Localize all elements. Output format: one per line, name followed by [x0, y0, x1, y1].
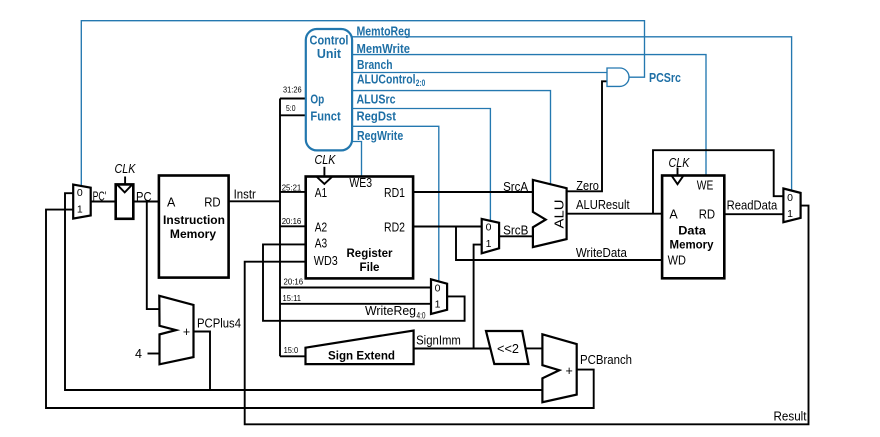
svg-text:PCPlus4: PCPlus4	[197, 317, 241, 331]
wire ALUSrc	[352, 109, 490, 221]
sign extend	[306, 331, 414, 365]
svg-text:1: 1	[486, 238, 492, 250]
wire Zero	[567, 81, 607, 191]
wire MemtoReg	[352, 37, 791, 191]
wire 15:0 to sign extend	[280, 355, 306, 357]
svg-text:25:21: 25:21	[282, 182, 302, 192]
gate AND (Branch & Zero)	[607, 68, 629, 86]
svg-text:15:11: 15:11	[283, 293, 302, 303]
svg-text:WriteData: WriteData	[576, 246, 627, 260]
svg-text:RD1: RD1	[384, 186, 405, 200]
wire Result rail	[245, 206, 809, 425]
svg-text:RD: RD	[204, 196, 220, 210]
svg-text:WriteReg: WriteReg	[365, 304, 416, 318]
register PC	[115, 161, 137, 219]
svg-text:WE: WE	[697, 178, 714, 192]
adder PCPlus4	[159, 296, 193, 365]
svg-text:RD2: RD2	[384, 220, 405, 234]
wire RegWrite	[352, 142, 361, 177]
svg-text:PC': PC'	[93, 189, 107, 203]
wire WriteReg to A3	[263, 244, 465, 320]
svg-text:15:0: 15:0	[284, 345, 299, 355]
wire ReadData	[724, 213, 783, 215]
wire constant 4	[148, 353, 160, 355]
wire PC	[133, 201, 159, 203]
data memory	[662, 155, 724, 278]
svg-text:Unit: Unit	[317, 47, 342, 61]
svg-text:SrcB: SrcB	[503, 224, 528, 238]
svg-text:SignImm: SignImm	[416, 334, 461, 348]
svg-text:1: 1	[435, 299, 441, 311]
svg-text:Register: Register	[347, 246, 393, 260]
wire RegDst	[352, 126, 439, 282]
wire A2 20:16	[280, 225, 306, 227]
wire shift output	[525, 347, 542, 349]
svg-text:Funct: Funct	[310, 109, 341, 123]
svg-text:ALU: ALU	[553, 200, 567, 229]
shifter <<2	[486, 331, 529, 364]
svg-text:<<2: <<2	[497, 342, 519, 356]
svg-text:Instruction: Instruction	[163, 213, 225, 227]
instruction memory	[159, 176, 229, 278]
wire Branch	[352, 72, 606, 74]
svg-text:MemWrite: MemWrite	[357, 42, 411, 56]
mux RegDst (WriteReg)	[431, 279, 447, 314]
svg-text:4: 4	[135, 347, 142, 361]
svg-text:RegDst: RegDst	[357, 110, 397, 124]
wire Funct 5:0	[280, 114, 306, 116]
svg-text:Data: Data	[678, 224, 706, 238]
svg-text:Op: Op	[310, 92, 324, 106]
wire ALUResult to result mux	[653, 150, 783, 214]
svg-text:A: A	[167, 196, 176, 210]
svg-text:Branch: Branch	[357, 58, 393, 72]
wire SignImm	[414, 348, 490, 350]
svg-text:WE3: WE3	[349, 176, 372, 190]
svg-text:CLK: CLK	[315, 152, 337, 167]
svg-text:PC: PC	[136, 190, 152, 204]
wire 15:11 to RegDst mux	[280, 303, 431, 305]
svg-text:SrcA: SrcA	[503, 180, 529, 194]
svg-text:2:0: 2:0	[416, 78, 426, 88]
svg-text:WD: WD	[668, 253, 686, 267]
wire 20:16 to RegDst mux	[280, 287, 431, 289]
svg-text:5:0: 5:0	[286, 103, 296, 113]
svg-text:PCBranch: PCBranch	[580, 353, 632, 367]
wire PCPlus4 rail	[65, 193, 210, 390]
wire PCPlus4 to branch adder	[210, 389, 542, 391]
svg-text:Memory: Memory	[670, 238, 714, 252]
wire PCSrc rail (AND output to PC mux select)	[81, 21, 644, 187]
wire WriteData	[456, 227, 662, 261]
svg-text:4:0: 4:0	[417, 310, 426, 320]
svg-text:1: 1	[77, 204, 83, 216]
wire PCBranch rail	[46, 210, 594, 408]
wire MemWrite	[352, 55, 706, 176]
svg-text:A3: A3	[315, 237, 327, 251]
svg-text:Result: Result	[774, 410, 807, 424]
svg-text:ReadData: ReadData	[727, 198, 778, 212]
svg-text:0: 0	[77, 187, 83, 199]
wire RD2	[413, 226, 482, 228]
wire ALUControl	[352, 91, 550, 185]
svg-text:0: 0	[435, 283, 441, 295]
wire instruction bus vertical	[279, 99, 281, 357]
svg-text:MemtoReg: MemtoReg	[357, 24, 411, 38]
svg-text:WD3: WD3	[314, 254, 338, 268]
svg-text:1: 1	[787, 208, 793, 220]
ALU	[533, 180, 567, 247]
svg-text:RD: RD	[699, 208, 715, 222]
svg-text:PCSrc: PCSrc	[649, 71, 681, 85]
mux PC source	[73, 185, 91, 219]
mux ALUSrc (SrcB)	[482, 219, 499, 253]
svg-text:CLK: CLK	[115, 161, 137, 176]
wire SignImm to SrcB mux	[474, 245, 482, 349]
mux MemtoReg (Result)	[783, 189, 800, 223]
svg-text:Control: Control	[310, 34, 349, 48]
wire PC'	[91, 201, 116, 203]
wire Instr	[229, 200, 280, 202]
svg-text:A1: A1	[315, 186, 327, 200]
wire RD1 SrcA	[413, 191, 533, 193]
svg-text:RegWrite: RegWrite	[357, 129, 403, 143]
svg-text:31:26: 31:26	[283, 84, 302, 94]
svg-text:ALUControl: ALUControl	[357, 73, 416, 87]
svg-text:0: 0	[486, 222, 492, 234]
wire A1 25:21	[280, 191, 306, 193]
svg-text:A: A	[669, 208, 678, 222]
register file	[306, 152, 413, 278]
svg-text:File: File	[360, 260, 380, 274]
wire Op 31:26	[280, 98, 306, 100]
svg-text:20:16: 20:16	[284, 277, 304, 287]
svg-text:ALUSrc: ALUSrc	[357, 92, 396, 106]
svg-text:0: 0	[787, 192, 793, 204]
svg-text:Sign Extend: Sign Extend	[328, 348, 395, 362]
wire PC tap to PCPlus4 adder	[147, 202, 160, 310]
svg-text:20:16: 20:16	[282, 216, 302, 226]
svg-text:Memory: Memory	[170, 227, 216, 241]
svg-text:+: +	[183, 325, 190, 339]
adder PCBranch	[542, 334, 576, 402]
wire SrcB	[499, 235, 533, 237]
svg-text:Instr: Instr	[234, 188, 256, 202]
wire ALUResult	[567, 213, 663, 215]
svg-text:ALUResult: ALUResult	[576, 198, 630, 212]
control unit	[306, 29, 352, 150]
svg-text:Zero: Zero	[576, 179, 599, 193]
svg-text:CLK: CLK	[669, 155, 691, 170]
svg-text:+: +	[565, 364, 572, 378]
svg-text:A2: A2	[315, 220, 327, 234]
